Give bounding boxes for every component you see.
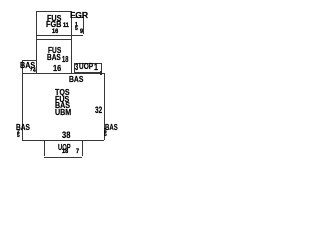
porch strip left edge	[74, 63, 75, 72]
top box and FGR bottom edge	[36, 35, 83, 36]
label FGR (attached garage)	[70, 11, 88, 20]
dim 11 (top box height)	[63, 23, 69, 30]
labels TQS FUS BAS UBM (main box storeys)	[55, 89, 71, 115]
right edge of stacked upper boxes and FGR left edge	[71, 11, 72, 73]
dim 18 (middle box height)	[62, 55, 68, 63]
main box right edge	[104, 73, 105, 140]
dim 9 (garage bottom)	[80, 29, 83, 36]
garage FGR top edge	[71, 17, 83, 18]
label BAS (main box top)	[69, 75, 83, 84]
label BAS (middle box)	[47, 53, 61, 62]
dim 16 (middle box width)	[53, 64, 61, 73]
dim 13 rotated (garage left edge)	[75, 23, 78, 31]
dims 2/5 rotated (right bay)	[104, 130, 107, 138]
dim rotated (porch strip left)	[75, 63, 78, 72]
bottom porch right edge	[82, 140, 83, 156]
bottom porch bottom edge	[44, 157, 82, 158]
porch strip UOP bottom edge	[74, 72, 101, 73]
dim 32 (main box height)	[95, 106, 102, 115]
middle box upper line	[36, 39, 72, 40]
porch strip right edge	[101, 63, 102, 72]
label BAS (right bay)	[105, 123, 118, 132]
main box top edge	[22, 73, 104, 74]
left annex top edge	[22, 60, 36, 61]
label FGB (garage basement, top box)	[46, 20, 61, 29]
label BAS (left annex)	[20, 62, 35, 70]
dim 38 (main box width)	[62, 131, 70, 140]
main box and annex left edge	[22, 60, 23, 140]
dim 16 (top box width)	[52, 29, 58, 36]
left edge of stacked upper boxes	[36, 11, 37, 73]
dim rotated (left annex right edge)	[33, 68, 36, 74]
dim 12 rotated (porch strip right)	[94, 63, 98, 72]
dim 18 (bottom porch width)	[62, 149, 68, 156]
label FUS (upper storey, top box)	[47, 14, 61, 23]
main box bottom edge	[22, 140, 104, 141]
FGR right edge	[83, 17, 84, 34]
dim mark at porch strip corner	[100, 71, 103, 74]
label UOP (bottom porch)	[58, 143, 71, 152]
label BAS (left bay)	[16, 123, 30, 132]
dim 7 (left annex width)	[30, 69, 32, 74]
dims 2/5 rotated (left bay)	[17, 131, 20, 139]
label UOP (porch strip)	[79, 62, 93, 71]
bottom porch left edge	[44, 140, 45, 156]
porch strip UOP top edge	[74, 63, 101, 64]
label FUS (middle box)	[48, 46, 61, 55]
dim 7 (bottom porch height)	[76, 149, 79, 156]
top box (FUS FGB) top edge	[36, 11, 72, 12]
